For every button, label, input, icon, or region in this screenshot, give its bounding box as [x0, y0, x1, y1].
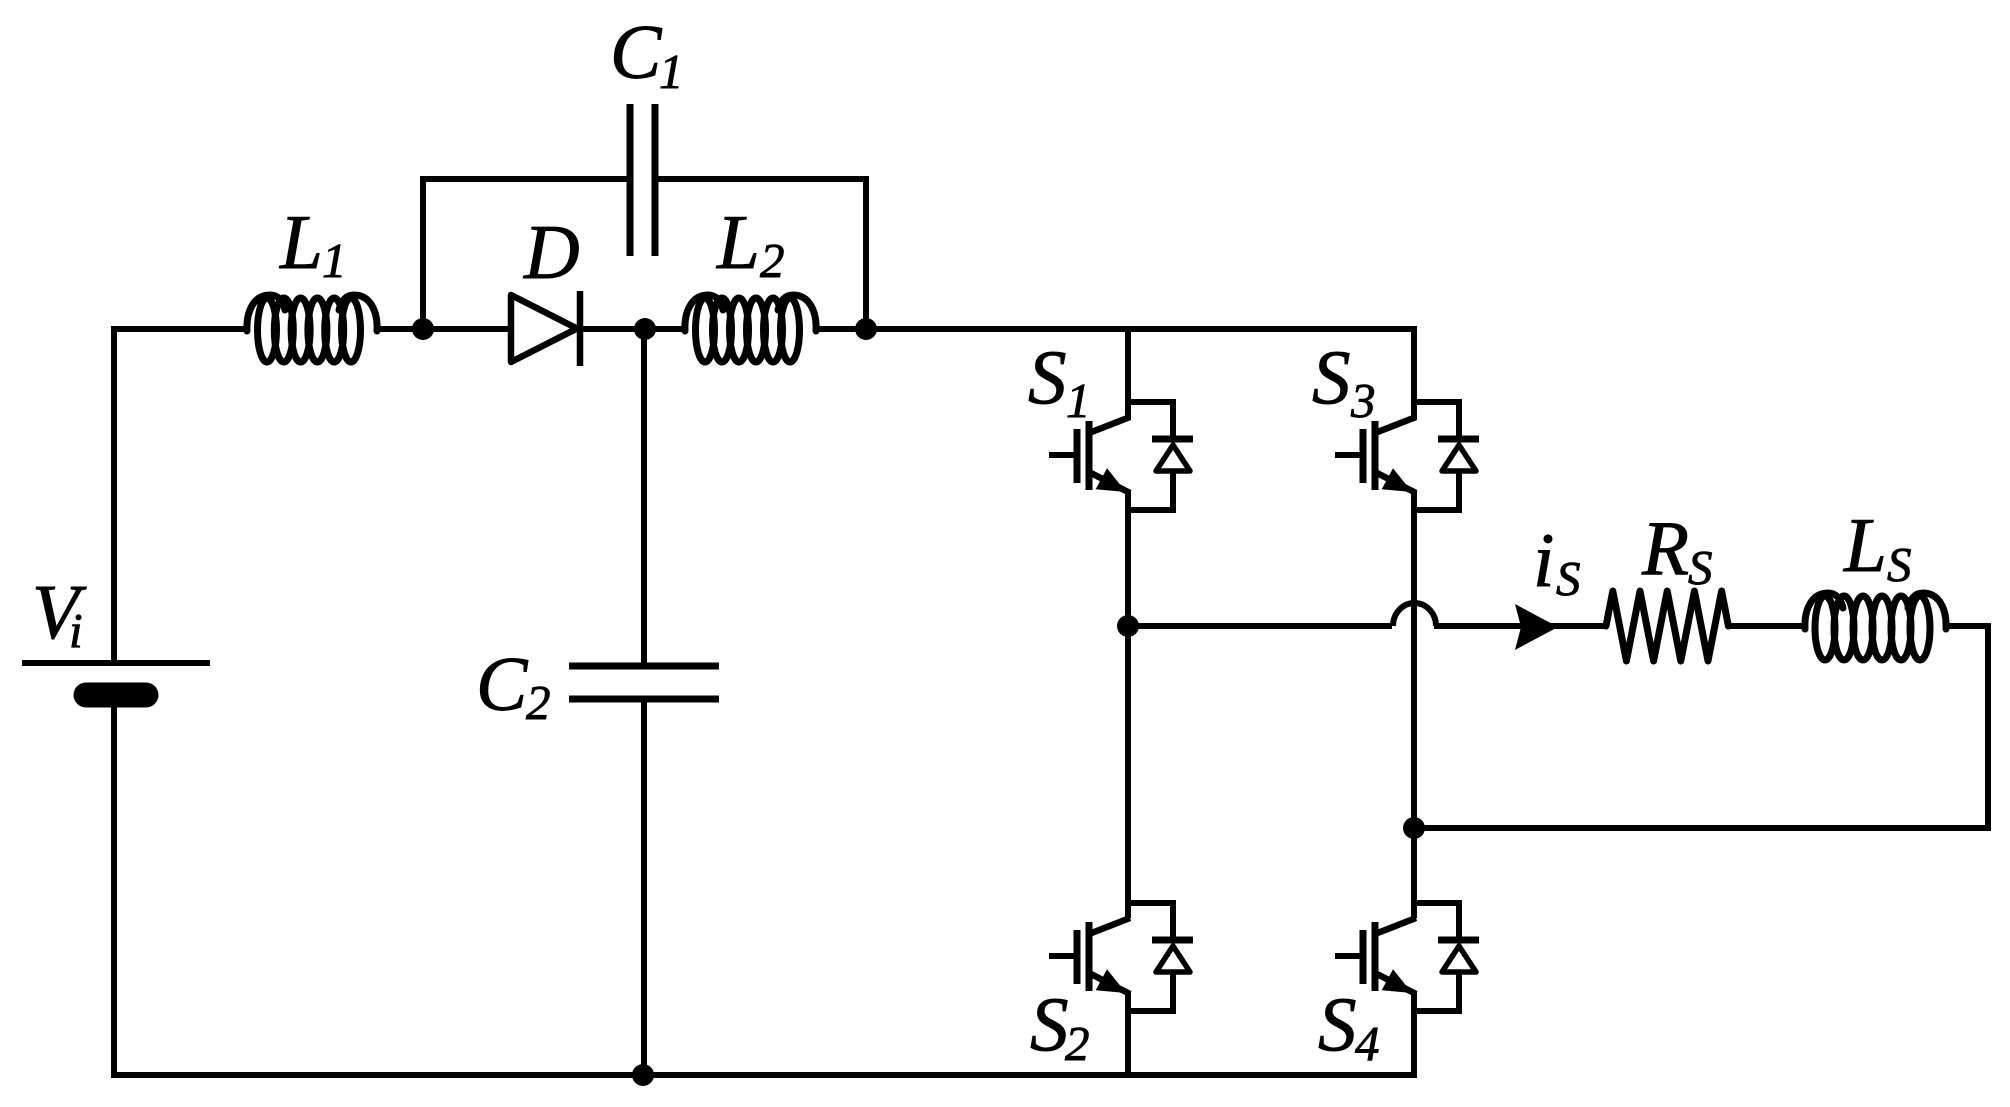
- junction dot node right of L2: [855, 318, 877, 340]
- S1 antiparallel diode cathode bar: [1152, 436, 1193, 443]
- S2 IGBT gate bar: [1074, 930, 1081, 984]
- wire leg B rail middle segment: [1411, 491, 1417, 918]
- S4 antiparallel diode branch bottom wire: [1456, 972, 1462, 1014]
- capacitor C2 bottom plate: [569, 696, 719, 703]
- diode D triangle: [511, 295, 577, 362]
- S4 antiparallel diode triangle: [1442, 946, 1476, 972]
- wire L2 to bridge: [816, 326, 1417, 332]
- inductor L2: [685, 295, 816, 362]
- S3 antiparallel diode cathode bar: [1438, 436, 1479, 443]
- voltage source Vi positive plate: [22, 660, 210, 666]
- S2 antiparallel diode cathode bar: [1152, 937, 1193, 944]
- S3 IGBT main bar: [1372, 421, 1379, 490]
- svg-text:S: S: [1318, 981, 1357, 1067]
- S2 top stub wire: [1128, 900, 1173, 906]
- S1 antiparallel diode triangle: [1156, 445, 1190, 471]
- svg-text:S: S: [1556, 551, 1581, 606]
- S1 collector diagonal: [1089, 417, 1130, 433]
- wire return horizontal: [1411, 825, 1988, 831]
- junction dot node between D and L2 (C2 tap): [634, 318, 656, 340]
- S1 bottom stub wire: [1128, 507, 1173, 513]
- S2 bottom stub wire: [1128, 1008, 1173, 1014]
- resistor RS zigzag: [1606, 591, 1728, 661]
- junction dot node leg A midpoint: [1117, 615, 1139, 637]
- S1 antiparallel diode branch top wire: [1170, 399, 1176, 439]
- wire C1 branch top right horizontal: [655, 176, 869, 182]
- wire leg A rail middle segment: [1125, 491, 1131, 918]
- svg-text:D: D: [523, 209, 580, 295]
- wire leg A midpoint to hop: [1128, 623, 1392, 629]
- S3 top stub wire: [1414, 399, 1459, 405]
- wire C2 branch lower vertical: [641, 699, 647, 1075]
- switch S3 (IGBT with antiparallel diode): [1335, 399, 1479, 513]
- svg-text:S: S: [1887, 537, 1912, 592]
- S3 collector diagonal: [1375, 417, 1416, 433]
- voltage source Vi negative plate: [86, 683, 146, 708]
- S1 IGBT gate bar: [1074, 429, 1081, 483]
- diode D cathode bar: [577, 291, 584, 366]
- S3 antiparallel diode branch bottom wire: [1456, 471, 1462, 513]
- wire C1 branch right vertical: [863, 176, 869, 329]
- inductor LS: [1805, 593, 1946, 660]
- svg-text:i: i: [1533, 517, 1554, 603]
- S4 gate lead wire: [1335, 953, 1360, 959]
- S3 gate lead wire: [1335, 452, 1360, 458]
- svg-text:C: C: [476, 641, 529, 727]
- S2 antiparallel diode triangle: [1156, 946, 1190, 972]
- junction dot node leg B to return wire: [1403, 817, 1425, 839]
- svg-text:4: 4: [1355, 1016, 1380, 1071]
- S3 emitter diagonal: [1375, 472, 1416, 493]
- S2 gate lead wire: [1049, 953, 1074, 959]
- switch S1 (IGBT with antiparallel diode): [1049, 399, 1193, 513]
- S2 IGBT main bar: [1086, 922, 1093, 991]
- svg-text:S: S: [1688, 540, 1713, 595]
- junction dot node C2 to bottom wire: [632, 1064, 654, 1086]
- capacitor C2 top plate: [569, 663, 719, 670]
- wire C1 branch top left horizontal: [420, 176, 630, 182]
- wire leg B rail top segment: [1411, 329, 1417, 419]
- svg-text:R: R: [1641, 505, 1689, 591]
- S4 collector diagonal: [1375, 918, 1416, 934]
- wire hop to resistor RS: [1434, 623, 1608, 629]
- capacitor C1 right plate: [652, 104, 659, 256]
- svg-text:2: 2: [760, 233, 785, 288]
- svg-text:S: S: [1028, 334, 1067, 420]
- switch S4 (IGBT with antiparallel diode): [1335, 900, 1479, 1014]
- wire left rail upper vertical: [111, 326, 117, 663]
- svg-text:i: i: [69, 603, 83, 658]
- S4 emitter diagonal: [1375, 973, 1416, 994]
- S3 antiparallel diode branch top wire: [1456, 399, 1462, 439]
- S2 emitter diagonal: [1089, 973, 1130, 994]
- S4 antiparallel diode cathode bar: [1438, 937, 1479, 944]
- S3 emitter arrow: [1382, 468, 1412, 492]
- wire leg A rail bottom segment: [1125, 992, 1131, 1075]
- svg-text:2: 2: [1065, 1016, 1090, 1071]
- svg-text:1: 1: [322, 233, 347, 288]
- wire top left horizontal (Vi to L1): [111, 326, 247, 332]
- svg-text:L: L: [279, 199, 323, 285]
- wire C2 branch upper vertical: [641, 329, 647, 666]
- S4 antiparallel diode branch top wire: [1456, 900, 1462, 940]
- S2 antiparallel diode branch bottom wire: [1170, 972, 1176, 1014]
- S1 top stub wire: [1128, 399, 1173, 405]
- wire diode D to L2: [580, 326, 687, 332]
- junction dot node between L1 and D: [412, 318, 434, 340]
- S1 antiparallel diode branch bottom wire: [1170, 471, 1176, 513]
- S1 IGBT main bar: [1086, 421, 1093, 490]
- S1 emitter diagonal: [1089, 472, 1130, 493]
- wire right edge vertical: [1985, 626, 1991, 831]
- S4 emitter arrow: [1382, 969, 1412, 993]
- S4 top stub wire: [1414, 900, 1459, 906]
- svg-text:S: S: [1312, 334, 1351, 420]
- svg-text:L: L: [716, 199, 760, 285]
- svg-text:C: C: [610, 9, 663, 95]
- switch S2 (IGBT with antiparallel diode): [1049, 900, 1193, 1014]
- svg-text:S: S: [1030, 981, 1069, 1067]
- S1 gate lead wire: [1049, 452, 1074, 458]
- wire left rail lower vertical: [111, 700, 117, 1078]
- wire RS to LS: [1727, 623, 1807, 629]
- wire bottom horizontal: [111, 1072, 1417, 1078]
- wire LS to right corner: [1946, 623, 1991, 629]
- svg-text:2: 2: [526, 675, 551, 730]
- S2 antiparallel diode branch top wire: [1170, 900, 1176, 940]
- wire L1 to diode D: [377, 326, 513, 332]
- S4 IGBT main bar: [1372, 922, 1379, 991]
- S3 bottom stub wire: [1414, 507, 1459, 513]
- S3 antiparallel diode triangle: [1442, 445, 1476, 471]
- svg-text:1: 1: [659, 44, 684, 99]
- wire leg B rail bottom segment: [1411, 992, 1417, 1075]
- wire leg A rail top segment: [1125, 326, 1131, 419]
- S3 IGBT gate bar: [1360, 429, 1367, 483]
- wire C1 branch left vertical: [420, 176, 426, 329]
- S4 IGBT gate bar: [1360, 930, 1367, 984]
- S4 bottom stub wire: [1414, 1008, 1459, 1014]
- svg-text:1: 1: [1066, 373, 1091, 428]
- S2 emitter arrow: [1096, 969, 1126, 993]
- capacitor C1 left plate: [627, 104, 634, 256]
- current arrow is: [1515, 604, 1558, 650]
- svg-text:L: L: [1843, 502, 1887, 588]
- S2 collector diagonal: [1089, 918, 1130, 934]
- wire hop over leg B rail: [1393, 603, 1436, 626]
- S1 emitter arrow: [1096, 468, 1126, 492]
- inductor L1: [247, 295, 377, 362]
- svg-text:3: 3: [1350, 373, 1376, 428]
